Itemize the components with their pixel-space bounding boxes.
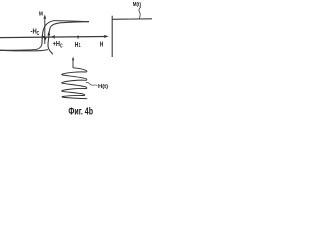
coil H(t) — [62, 68, 88, 99]
hysteresis loop: bottom edge upper line (descending branch tail) — [0, 44, 42, 51]
svg-text:C: C — [37, 31, 40, 37]
H1 tick — [77, 36, 79, 39]
hysteresis loop: top edge upper line (descending branch) — [45, 21, 89, 27]
right graph vertical axis — [111, 16, 113, 57]
svg-text:M: M — [39, 12, 43, 18]
+Hc dot — [52, 36, 54, 38]
hysteresis loop: top edge lower line (ascending branch) — [50, 22, 89, 27]
coil top arrow — [72, 56, 74, 68]
svg-text:H: H — [100, 40, 104, 49]
-Hc dot — [43, 36, 45, 38]
H axis — [0, 35, 109, 38]
-Hc tick — [41, 35, 43, 39]
H(t) connector squiggle — [86, 82, 98, 85]
svg-text:H(t): H(t) — [98, 84, 108, 90]
descending branch arrowhead — [44, 38, 47, 42]
ascending branch arrowhead — [47, 31, 50, 35]
H1 dot — [77, 36, 79, 38]
svg-text:Фиг. 4b: Фиг. 4b — [68, 107, 93, 118]
hysteresis descending branch steep section — [42, 26, 45, 43]
svg-text:1: 1 — [79, 43, 81, 49]
M axis — [43, 14, 46, 44]
+Hc tick — [53, 35, 55, 39]
svg-text:+H: +H — [53, 39, 60, 48]
hysteresis loop: bottom edge lower line (ascending branch) — [0, 50, 48, 51]
M(t) connector squiggle — [139, 7, 141, 19]
svg-text:C: C — [60, 43, 63, 49]
right graph step line — [112, 18, 152, 21]
svg-text:M(t): M(t) — [133, 2, 141, 8]
hysteresis ascending branch steep section with bottom hook — [48, 27, 53, 54]
